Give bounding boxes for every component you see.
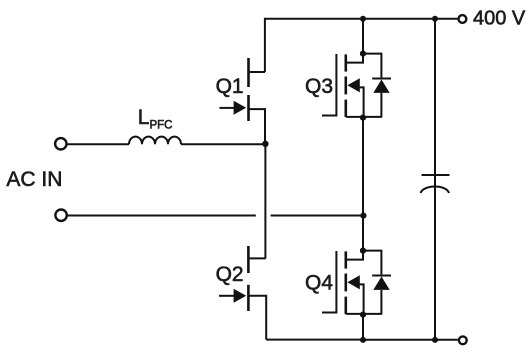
- transistor Q1: [219, 58, 265, 144]
- wire AC neutral left segment: [68, 215, 256, 217]
- capacitor C1 bottom plate (curved): [421, 187, 450, 193]
- junction Q3 drain / body diode: [360, 51, 366, 57]
- wire bottom rail thin segment: [266, 339, 362, 341]
- inductor LPFC: [129, 137, 181, 145]
- svg-text:400 V: 400 V: [473, 8, 526, 30]
- junction top rail / capacitor: [432, 16, 438, 22]
- capacitor C1 top plate: [422, 174, 450, 176]
- junction Q3 source / body diode: [360, 115, 366, 121]
- svg-text:Q3: Q3: [305, 75, 333, 98]
- junction Q4 source / body diode: [360, 312, 366, 318]
- wire top rail to Q3 drain: [362, 19, 364, 54]
- wire bottom rail thick segment: [362, 339, 458, 341]
- junction Q4 drain / body diode: [360, 248, 366, 254]
- junction bottom rail / capacitor: [432, 337, 438, 343]
- wire inductor to node A: [181, 143, 263, 145]
- wire AC neutral right segment to slow-leg midpoint: [271, 215, 362, 217]
- transistor Q2: [219, 246, 266, 340]
- wire Q3 source to slow-leg midpoint: [362, 118, 364, 216]
- transistor Q4 with body diode: [322, 251, 391, 315]
- terminal AC line (top): [55, 138, 66, 149]
- junction top rail / slow leg: [360, 16, 366, 22]
- terminal AC neutral (bottom): [55, 210, 66, 221]
- svg-text:LPFC: LPFC: [138, 106, 173, 131]
- wire capacitor branch (top rail to bottom rail): [434, 19, 436, 340]
- node A: fast-leg midpoint junction: [262, 141, 268, 147]
- svg-text:AC IN: AC IN: [6, 168, 62, 191]
- transistor Q3 with body diode: [322, 54, 391, 118]
- svg-text:Q4: Q4: [305, 271, 333, 294]
- wire node A down to Q2 (crosses neutral without connection): [264, 144, 266, 259]
- junction bottom rail / slow leg: [360, 337, 366, 343]
- wire Q4 source to bottom rail: [362, 315, 364, 340]
- terminal 400 V: [459, 15, 467, 23]
- wire top rail (400 V bus): [265, 19, 458, 72]
- wire AC line to inductor: [67, 143, 129, 145]
- svg-text:Q1: Q1: [216, 75, 244, 98]
- terminal DC return: [459, 336, 467, 344]
- wire slow-leg midpoint to Q4 drain: [362, 216, 364, 251]
- svg-text:Q2: Q2: [216, 263, 244, 286]
- node B: slow-leg midpoint junction: [360, 213, 366, 219]
